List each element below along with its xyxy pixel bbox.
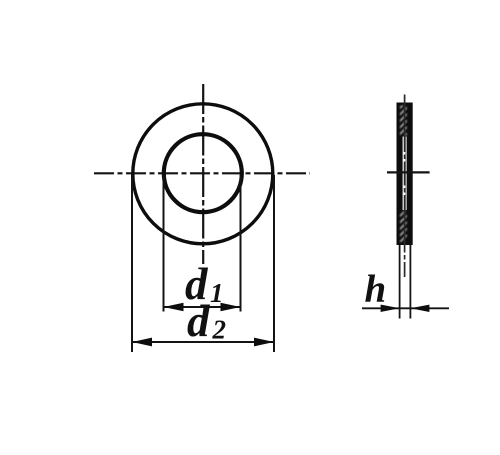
svg-text:h: h (365, 268, 387, 311)
gray shading right of centerline inside slot (405, 137, 407, 211)
d1 left extension line (163, 175, 165, 312)
h right extension line (409, 245, 411, 319)
d2 left arrowhead (132, 338, 152, 347)
d2 left extension line (131, 175, 133, 352)
h left arrowhead (points right) (381, 305, 400, 312)
d1 left arrowhead (164, 303, 184, 311)
d2 right extension line (273, 175, 275, 352)
d1 dimension line (164, 306, 241, 308)
horizontal centerline of washer front view (94, 172, 310, 174)
h right arrowhead (points left) (410, 305, 429, 312)
svg-text:1: 1 (210, 278, 224, 308)
svg-text:2: 2 (212, 315, 227, 345)
side view vertical centerline (404, 95, 406, 278)
side view: washer cross-section body (397, 103, 413, 246)
h dimension line (362, 307, 449, 309)
d1 right extension line (240, 175, 242, 312)
d2 dimension line (132, 341, 274, 343)
outer circle (washer outside diameter d2) (133, 104, 273, 244)
hole opening in section (white slot) (403, 137, 407, 211)
vertical centerline of washer front view (202, 84, 204, 264)
svg-text:d: d (187, 296, 211, 346)
d2 right arrowhead (254, 338, 274, 347)
d1 right arrowhead (221, 303, 241, 311)
side view horizontal centerline (387, 171, 430, 173)
inner circle (washer hole diameter d1) (164, 134, 242, 212)
h left extension line (399, 245, 401, 319)
